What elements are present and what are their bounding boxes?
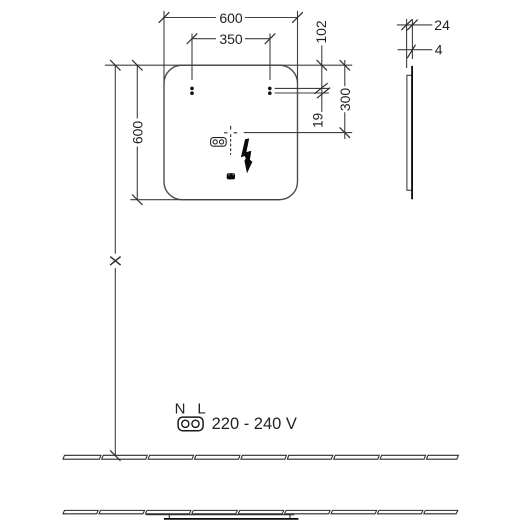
- side view glass thick line: [411, 66, 413, 199]
- svg-text:220 - 240 V: 220 - 240 V: [212, 415, 297, 433]
- svg-text:300: 300: [337, 88, 353, 112]
- leader lines from holes for 19 dim: [275, 87, 329, 89]
- tick 24 right: [407, 20, 418, 31]
- tick 102 top: [317, 60, 327, 70]
- dimension 102 vertical line: [321, 46, 323, 113]
- extension line 350 left: [191, 34, 193, 81]
- dimension 24 line: [397, 24, 432, 26]
- tick 300 bottom: [340, 127, 350, 137]
- side dim 24 extension line right: [411, 19, 413, 59]
- dimension 600 horizontal line: [164, 17, 216, 19]
- side dim 24 extension line left: [406, 19, 408, 68]
- tick X bottom at floor: [110, 450, 120, 460]
- center cross dashed vertical: [230, 126, 232, 155]
- svg-text:350: 350: [219, 31, 243, 47]
- extension line 600 right: [297, 11, 299, 84]
- dimension 4 line: [398, 49, 433, 51]
- top extension line at mirror top: [105, 64, 352, 66]
- tick 350 left: [187, 33, 198, 44]
- mirror front view outline: [164, 65, 298, 200]
- tick 350 right: [265, 33, 276, 44]
- svg-text:19: 19: [311, 113, 326, 128]
- dimension 300 vertical line: [344, 60, 346, 86]
- dimension line X vertical: [114, 65, 116, 253]
- socket symbol bottom: [178, 417, 203, 431]
- tick 600v bottom: [132, 195, 142, 205]
- svg-text:600: 600: [219, 10, 243, 26]
- svg-text:4: 4: [435, 42, 443, 58]
- top view body left cap: [168, 515, 170, 518]
- socket symbol inside mirror: [211, 138, 227, 147]
- lightning bolt: [241, 138, 253, 173]
- dimension 600 vertical line: [136, 65, 138, 118]
- svg-text:L: L: [197, 401, 205, 418]
- top view glass thick line: [164, 518, 299, 520]
- extension line 350 right: [269, 34, 271, 81]
- dimension 19 double slash ticks: [314, 83, 327, 94]
- wall line top view (slab chain): [63, 510, 458, 513]
- floor line front view (slab chain): [63, 455, 458, 459]
- center cross dashed horizontal: [224, 132, 228, 134]
- svg-text:102: 102: [313, 20, 329, 44]
- tick 600v top: [132, 60, 142, 70]
- tick 4: [407, 45, 415, 59]
- tick X top: [110, 60, 120, 70]
- svg-text:N: N: [175, 401, 186, 418]
- top view mirror body line: [146, 514, 294, 516]
- extension line 600 left: [163, 11, 165, 84]
- bottom extension line at mirror bottom: [130, 199, 280, 201]
- svg-text:24: 24: [434, 17, 450, 33]
- svg-text:600: 600: [129, 121, 145, 145]
- tick 24 left: [401, 20, 412, 31]
- sensor blob: [227, 173, 235, 179]
- tick 600h right: [292, 12, 303, 23]
- X glyph: [110, 257, 120, 266]
- tick 600h left: [159, 12, 170, 23]
- center extension line to 300 dim: [244, 132, 353, 134]
- top view body right cap: [289, 515, 291, 518]
- mounting holes left pair: [190, 87, 194, 91]
- mounting holes right pair: [268, 87, 272, 91]
- tick 300 top: [340, 60, 350, 70]
- dimension 350 line: [192, 38, 216, 40]
- side view body rectangle: [407, 75, 412, 190]
